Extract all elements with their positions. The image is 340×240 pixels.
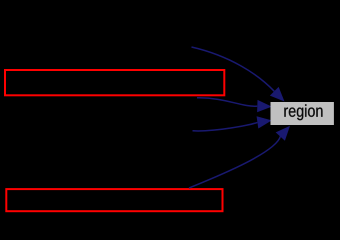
wire edge 2 (from upper box) — [197, 98, 257, 106]
node box (truncated, red border) bottom-left — [6, 189, 222, 211]
wire edge 1 (curved, top) — [192, 47, 275, 91]
wire edge 4 (curved, bottom) — [189, 136, 281, 188]
arrowhead edge 3 — [257, 116, 272, 128]
node box (truncated, red border) top-left — [5, 70, 224, 95]
wire edge 3 (middle) — [193, 122, 258, 131]
arrowhead edge 1 — [270, 87, 285, 102]
arrowhead edge 2 — [257, 100, 272, 112]
label region — [284, 104, 322, 120]
arrowhead edge 4 — [276, 126, 290, 141]
node region (current node, gray) — [271, 102, 334, 125]
